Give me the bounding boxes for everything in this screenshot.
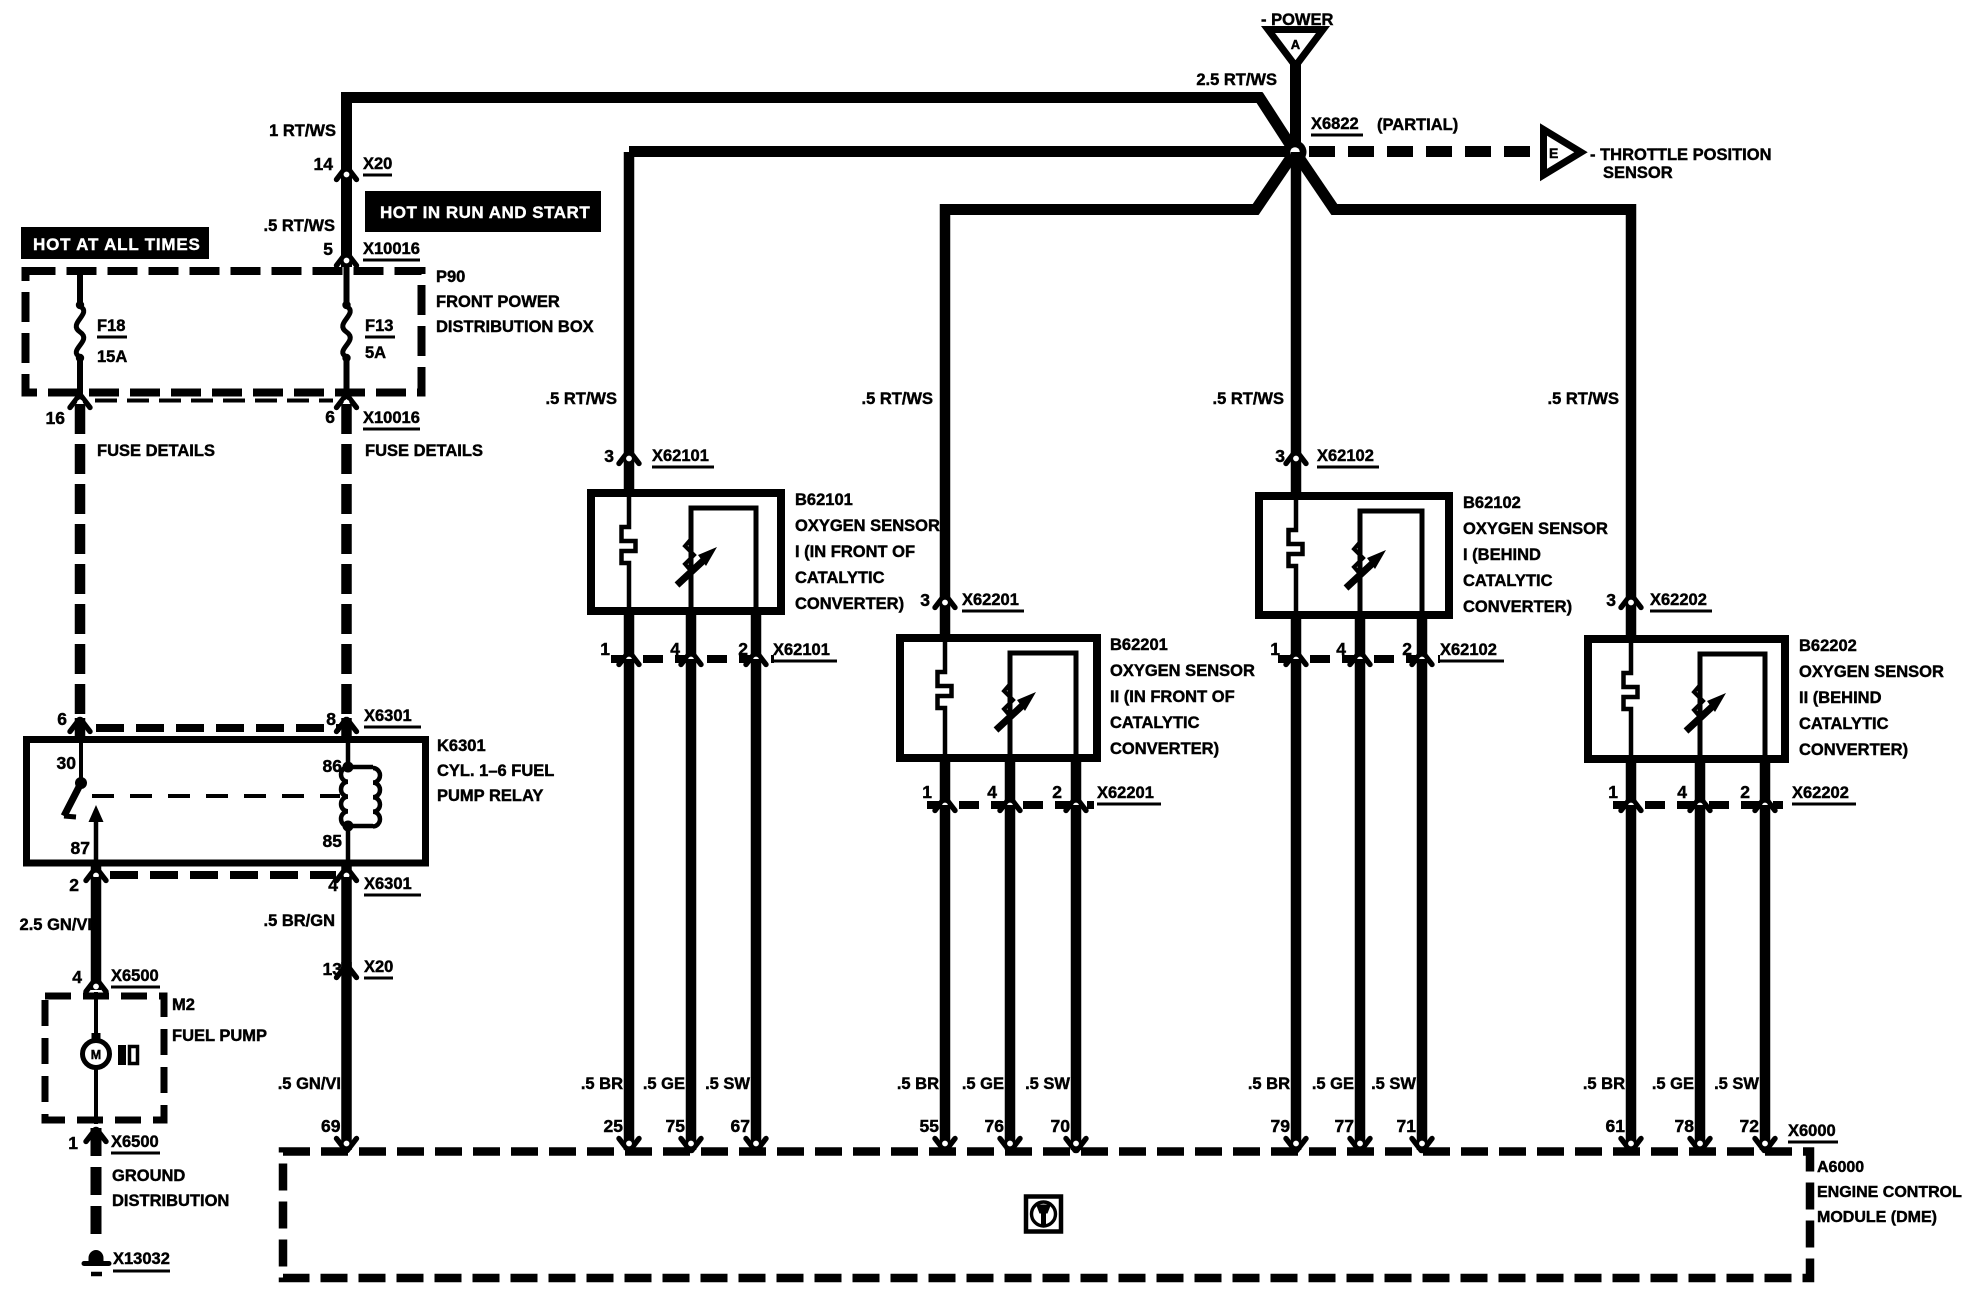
svg-text:X6822: X6822 xyxy=(1311,115,1359,133)
svg-text:FUSE DETAILS: FUSE DETAILS xyxy=(365,442,483,460)
header HOT AT ALL TIMES xyxy=(21,227,209,259)
wire .5 GE B62202 to ECM xyxy=(1695,805,1706,1150)
wire pin 85 out of relay xyxy=(341,861,352,880)
svg-text:CATALYTIC: CATALYTIC xyxy=(795,569,885,587)
relay mechanical link (dashed) xyxy=(92,794,340,798)
svg-text:25: 25 xyxy=(604,1116,624,1136)
svg-text:2: 2 xyxy=(69,875,79,895)
wire .5 BR B62201 to ECM xyxy=(940,805,951,1150)
relay coil terminal 86 dot xyxy=(343,762,354,773)
svg-text:69: 69 xyxy=(321,1116,341,1136)
svg-text:M: M xyxy=(91,1048,101,1062)
svg-text:CONVERTER): CONVERTER) xyxy=(1799,741,1908,759)
svg-text:ENGINE CONTROL: ENGINE CONTROL xyxy=(1817,1184,1962,1201)
wire B62202 pin 4 stub xyxy=(1695,759,1706,809)
wire to ground X13032 (dashed) xyxy=(91,1128,102,1245)
svg-text:.5 GE: .5 GE xyxy=(1652,1075,1694,1093)
connector X6000 pin 70 xyxy=(1066,1139,1086,1151)
wire .5 RT/WS feed to B62101 xyxy=(624,152,635,493)
svg-text:2: 2 xyxy=(1052,782,1062,802)
svg-text:X62101: X62101 xyxy=(773,641,830,659)
svg-text:PUMP RELAY: PUMP RELAY xyxy=(437,787,543,805)
connector X20 pin 13 xyxy=(337,966,357,978)
DME symbol xyxy=(1026,1197,1061,1232)
connector X6000 pin 67 xyxy=(746,1139,766,1151)
svg-text:.5 BR: .5 BR xyxy=(1583,1075,1625,1093)
svg-text:55: 55 xyxy=(920,1116,940,1136)
svg-text:1: 1 xyxy=(1608,782,1618,802)
svg-text:DISTRIBUTION BOX: DISTRIBUTION BOX xyxy=(436,318,594,336)
wire .5 GE B62101 to ECM xyxy=(686,659,697,1150)
connector X6500 pin 1 xyxy=(86,1130,106,1142)
heater element B62201 xyxy=(938,638,952,758)
ground symbol X13032 xyxy=(89,1250,104,1263)
svg-text:GROUND: GROUND xyxy=(112,1167,185,1185)
sensor element frame B62202 xyxy=(1700,654,1765,759)
svg-text:72: 72 xyxy=(1740,1116,1760,1136)
connector X6301 pin 6 xyxy=(70,720,90,732)
wire into motor xyxy=(94,992,98,1042)
connector X62101 pin 2 xyxy=(746,653,766,665)
arrow E to throttle position sensor (triangle) xyxy=(1544,130,1582,176)
sensor probe arrow B62101 xyxy=(685,539,694,571)
connector X6000 pin 77 xyxy=(1350,1139,1370,1151)
wire fuse F13 to relay (dashed) xyxy=(341,404,352,716)
connector X62101 pin 1 xyxy=(619,653,639,665)
relay coil terminal 85 dot xyxy=(343,821,354,832)
svg-text:2.5 RT/WS: 2.5 RT/WS xyxy=(1196,71,1277,89)
connector X62201 pin 2 xyxy=(1066,799,1086,811)
svg-text:X10016: X10016 xyxy=(363,240,420,258)
sensor probe arrow B62201 xyxy=(1004,684,1013,716)
svg-text:FUSE DETAILS: FUSE DETAILS xyxy=(97,442,215,460)
svg-text:DISTRIBUTION: DISTRIBUTION xyxy=(112,1192,229,1210)
svg-text:OXYGEN SENSOR: OXYGEN SENSOR xyxy=(1799,663,1944,681)
wire .5 SW B62102 to ECM xyxy=(1417,659,1428,1150)
wire lower horizontal bus right segment xyxy=(1332,204,1630,215)
wire power triangle to junction X6822 xyxy=(1290,64,1301,152)
wire .5 BR B62101 to ECM xyxy=(624,659,635,1150)
connector X10016 pin 5 xyxy=(337,254,357,266)
svg-text:.5 GN/VI: .5 GN/VI xyxy=(278,1075,341,1093)
svg-text:B62102: B62102 xyxy=(1463,494,1521,512)
svg-text:67: 67 xyxy=(731,1116,750,1136)
svg-text:- THROTTLE POSITION: - THROTTLE POSITION xyxy=(1590,146,1772,164)
svg-text:1: 1 xyxy=(68,1133,78,1153)
wire .5 GN/VI to ECM pin 69 xyxy=(341,962,352,1150)
svg-text:.5 GE: .5 GE xyxy=(1312,1075,1354,1093)
heater element B62101 xyxy=(622,493,636,613)
connector X62102 pin 2 xyxy=(1412,653,1432,665)
wire .5 RT/WS feed to B62102 xyxy=(1291,152,1302,496)
connector X62201 pin 3 xyxy=(935,596,955,608)
svg-text:.5 GE: .5 GE xyxy=(643,1075,685,1093)
fuel pump symbol xyxy=(118,1045,126,1065)
wire fuse F18 to relay (dashed) xyxy=(75,404,86,716)
svg-text:14: 14 xyxy=(314,154,334,174)
svg-text:16: 16 xyxy=(46,408,66,428)
svg-text:F18: F18 xyxy=(97,317,125,335)
svg-text:- POWER: - POWER xyxy=(1261,11,1333,29)
oxygen sensor B62102 box xyxy=(1259,496,1449,615)
relay coil K6301 xyxy=(341,767,348,826)
svg-text:.5 RT/WS: .5 RT/WS xyxy=(1547,390,1619,408)
svg-text:X62101: X62101 xyxy=(652,447,709,465)
svg-text:1: 1 xyxy=(922,782,932,802)
connector X62201 pin 4 xyxy=(1000,799,1020,811)
wire B62101 pin 4 stub xyxy=(686,611,697,663)
connector X62101 pin 4 xyxy=(681,653,701,665)
svg-text:3: 3 xyxy=(920,590,930,610)
relay coil wire pin 85 xyxy=(346,826,351,861)
svg-text:4: 4 xyxy=(670,639,680,659)
svg-text:I (IN FRONT OF: I (IN FRONT OF xyxy=(795,543,915,561)
svg-text:X62201: X62201 xyxy=(1097,784,1154,802)
svg-text:OXYGEN SENSOR: OXYGEN SENSOR xyxy=(1463,520,1608,538)
wire .5 RT/WS feed to B62201 xyxy=(940,204,951,638)
header HOT IN RUN AND START xyxy=(365,191,601,232)
wire below fuse F18 xyxy=(77,360,83,396)
wire 2.5 RT/WS bus (top horizontal) xyxy=(347,92,1263,103)
svg-text:79: 79 xyxy=(1271,1116,1291,1136)
svg-text:X62102: X62102 xyxy=(1317,447,1374,465)
svg-text:X6500: X6500 xyxy=(111,967,159,985)
connector line X62202 bottom xyxy=(1613,801,1783,809)
svg-text:70: 70 xyxy=(1051,1116,1071,1136)
connector line X6301 upper xyxy=(96,724,340,732)
svg-text:X6301: X6301 xyxy=(364,707,412,725)
svg-text:87: 87 xyxy=(71,838,90,858)
svg-text:.5 BR/GN: .5 BR/GN xyxy=(263,912,335,930)
sensor probe arrow B62202 xyxy=(1694,685,1703,717)
svg-text:1: 1 xyxy=(1270,639,1280,659)
wire pin 87 out of relay xyxy=(91,861,102,880)
connector X6000 pin 72 xyxy=(1755,1139,1775,1151)
svg-text:.5 SW: .5 SW xyxy=(705,1075,750,1093)
connector pin 16 xyxy=(70,396,90,408)
connector X6000 pin 75 xyxy=(681,1139,701,1151)
relay switch pivot xyxy=(75,777,87,789)
svg-text:.5 SW: .5 SW xyxy=(1025,1075,1070,1093)
connector X62102 pin 3 xyxy=(1286,452,1306,464)
svg-text:FUEL PUMP: FUEL PUMP xyxy=(172,1027,267,1045)
svg-text:2: 2 xyxy=(1740,782,1750,802)
wire B62102 pin 2 stub xyxy=(1417,615,1428,663)
svg-text:X20: X20 xyxy=(363,155,392,173)
svg-text:2: 2 xyxy=(738,639,748,659)
svg-text:OXYGEN SENSOR: OXYGEN SENSOR xyxy=(1110,662,1255,680)
connector X62202 pin 4 xyxy=(1690,799,1710,811)
box K6301 fuel pump relay xyxy=(27,740,426,864)
svg-text:71: 71 xyxy=(1397,1116,1417,1136)
svg-text:77: 77 xyxy=(1335,1116,1354,1136)
wire motor to pin 1 xyxy=(94,1068,98,1124)
wire .5 GE B62102 to ECM xyxy=(1355,659,1366,1150)
svg-text:M2: M2 xyxy=(172,996,195,1014)
connector X62102 pin 1 xyxy=(1286,653,1306,665)
wire below fuse F13 xyxy=(344,360,350,396)
svg-text:CATALYTIC: CATALYTIC xyxy=(1463,572,1553,590)
fuse F13 5A xyxy=(343,306,351,357)
relay coil wire pin 86 xyxy=(346,743,351,765)
wire diagonal lower-left into junction xyxy=(1254,159,1290,212)
connector X20 pin 14 xyxy=(337,168,357,180)
svg-text:4: 4 xyxy=(72,967,82,987)
connector X6000 pin 78 xyxy=(1690,1139,1710,1151)
svg-text:X62201: X62201 xyxy=(962,591,1019,609)
oxygen sensor B62202 box xyxy=(1588,639,1785,759)
wire diagonal junction to lower-right xyxy=(1300,159,1336,212)
box P90 front power distribution box xyxy=(26,271,422,393)
connector X6000 pin 71 xyxy=(1412,1139,1432,1151)
connector line X10016 under P90 xyxy=(95,399,333,403)
box M2 fuel pump xyxy=(45,996,164,1120)
svg-text:2.5 GN/VI: 2.5 GN/VI xyxy=(20,916,92,934)
svg-text:.5 BR: .5 BR xyxy=(581,1075,623,1093)
heater element B62102 xyxy=(1289,496,1303,616)
wire pin 8 into relay xyxy=(341,718,352,742)
connector line X62201 bottom xyxy=(927,801,1094,809)
svg-text:85: 85 xyxy=(323,831,343,851)
svg-text:5A: 5A xyxy=(365,344,386,362)
svg-text:X6301: X6301 xyxy=(364,875,412,893)
wire into fuse F18 xyxy=(77,271,83,303)
oxygen sensor B62101 box xyxy=(591,493,781,611)
connector X62102 pin 4 xyxy=(1350,653,1370,665)
svg-text:P90: P90 xyxy=(436,268,465,286)
box A6000 engine control module xyxy=(283,1152,1810,1279)
wire .5 BR/GN xyxy=(341,877,352,968)
svg-text:3: 3 xyxy=(1606,590,1616,610)
connector X6301 pin 4 xyxy=(337,869,357,881)
wire B62201 pin 4 stub xyxy=(1005,758,1016,809)
connector line X62101 bottom xyxy=(611,655,774,663)
connector X10016 pin 6 xyxy=(337,396,357,408)
wire diagonal top-left into junction xyxy=(1258,95,1291,146)
svg-text:8: 8 xyxy=(326,709,336,729)
wire pin 6 into relay xyxy=(75,718,86,742)
wire B62101 pin 1 stub xyxy=(624,611,635,663)
svg-text:CATALYTIC: CATALYTIC xyxy=(1799,715,1889,733)
svg-text:X6000: X6000 xyxy=(1788,1122,1836,1140)
svg-text:X62202: X62202 xyxy=(1792,784,1849,802)
svg-text:4: 4 xyxy=(1336,639,1346,659)
svg-text:CONVERTER): CONVERTER) xyxy=(1463,598,1572,616)
svg-text:6: 6 xyxy=(57,709,67,729)
svg-text:1 RT/WS: 1 RT/WS xyxy=(269,122,336,140)
svg-text:CATALYTIC: CATALYTIC xyxy=(1110,714,1200,732)
svg-text:5: 5 xyxy=(323,239,333,259)
svg-text:.5 RT/WS: .5 RT/WS xyxy=(861,390,933,408)
wire .5 BR B62102 to ECM xyxy=(1291,659,1302,1150)
connector X6500 pin 4 xyxy=(86,980,106,992)
sensor probe arrow B62102 xyxy=(1354,542,1363,574)
connector X6301 pin 2 xyxy=(86,869,106,881)
svg-text:FRONT POWER: FRONT POWER xyxy=(436,293,560,311)
fuse F18 15A xyxy=(76,306,84,357)
svg-text:SENSOR: SENSOR xyxy=(1603,164,1673,182)
connector line X62102 bottom xyxy=(1278,655,1440,663)
svg-text:(PARTIAL): (PARTIAL) xyxy=(1377,116,1458,134)
svg-text:15A: 15A xyxy=(97,348,127,366)
svg-text:CYL. 1–6 FUEL: CYL. 1–6 FUEL xyxy=(437,762,554,780)
svg-text:B62202: B62202 xyxy=(1799,637,1857,655)
svg-text:X6500: X6500 xyxy=(111,1133,159,1151)
svg-text:CONVERTER): CONVERTER) xyxy=(1110,740,1219,758)
sensor element frame B62201 xyxy=(1010,653,1076,758)
connector X6301 pin 8 xyxy=(337,720,357,732)
svg-text:B62201: B62201 xyxy=(1110,636,1168,654)
svg-text:.5 GE: .5 GE xyxy=(962,1075,1004,1093)
svg-text:.5 SW: .5 SW xyxy=(1371,1075,1416,1093)
wire .5 GE B62201 to ECM xyxy=(1005,805,1016,1150)
svg-text:6: 6 xyxy=(325,407,335,427)
svg-text:K6301: K6301 xyxy=(437,737,486,755)
svg-text:4: 4 xyxy=(987,782,997,802)
wire .5 RT/WS feed to B62202 xyxy=(1626,204,1637,639)
svg-text:B62101: B62101 xyxy=(795,491,853,509)
wire into fuse F13 xyxy=(344,267,350,303)
connector X62201 pin 1 xyxy=(935,799,955,811)
connector X6000 pin 69 xyxy=(337,1139,357,1151)
svg-text:I (BEHIND: I (BEHIND xyxy=(1463,546,1541,564)
relay contact 87 arrow xyxy=(89,805,104,822)
connector X6000 pin 25 xyxy=(619,1139,639,1151)
svg-text:.5 BR: .5 BR xyxy=(897,1075,939,1093)
wire B62102 pin 1 stub xyxy=(1291,615,1302,663)
wire dashed junction to throttle position sensor xyxy=(1309,146,1540,157)
svg-text:II (BEHIND: II (BEHIND xyxy=(1799,689,1882,707)
sensor element frame B62101 xyxy=(691,508,756,611)
wire B62202 pin 1 stub xyxy=(1626,759,1637,809)
svg-text:X13032: X13032 xyxy=(113,1250,170,1268)
wire .5 SW B62101 to ECM xyxy=(751,659,762,1150)
svg-text:76: 76 xyxy=(985,1116,1005,1136)
sensor element frame B62102 xyxy=(1360,511,1422,615)
svg-text:2: 2 xyxy=(1402,639,1412,659)
relay switch input wire pin 30 xyxy=(79,743,83,783)
svg-text:E: E xyxy=(1549,145,1558,161)
svg-text:CONVERTER): CONVERTER) xyxy=(795,595,904,613)
connector X6000 pin 79 xyxy=(1286,1139,1306,1151)
wire B62101 pin 2 stub xyxy=(751,611,762,663)
svg-text:30: 30 xyxy=(57,753,77,773)
wire B62201 pin 1 stub xyxy=(940,758,951,809)
svg-text:78: 78 xyxy=(1675,1116,1695,1136)
wire middle horizontal bus to junction xyxy=(629,146,1295,157)
wire B62102 pin 4 stub xyxy=(1355,615,1366,663)
wire B62201 pin 2 stub xyxy=(1071,758,1082,809)
connector X62202 pin 2 xyxy=(1755,799,1775,811)
svg-text:.5 RT/WS: .5 RT/WS xyxy=(545,390,617,408)
wire .5 BR B62202 to ECM xyxy=(1626,805,1637,1150)
svg-text:HOT IN RUN AND START: HOT IN RUN AND START xyxy=(380,203,590,222)
svg-text:X62102: X62102 xyxy=(1440,641,1497,659)
svg-text:.5 RT/WS: .5 RT/WS xyxy=(263,217,335,235)
svg-text:1: 1 xyxy=(600,639,610,659)
svg-text:61: 61 xyxy=(1606,1116,1626,1136)
wire .5 SW B62202 to ECM xyxy=(1760,805,1771,1150)
connector X62101 pin 3 xyxy=(619,452,639,464)
svg-text:.5 RT/WS: .5 RT/WS xyxy=(1212,390,1284,408)
oxygen sensor B62201 box xyxy=(900,638,1097,758)
svg-text:MODULE (DME): MODULE (DME) xyxy=(1817,1209,1937,1226)
wire lower horizontal bus left segment xyxy=(945,204,1258,215)
svg-text:A6000: A6000 xyxy=(1817,1159,1864,1176)
heater element B62202 xyxy=(1624,639,1638,759)
svg-text:X10016: X10016 xyxy=(363,409,420,427)
connector line X6301 lower xyxy=(110,871,336,879)
svg-text:X62202: X62202 xyxy=(1650,591,1707,609)
connector X62202 pin 1 xyxy=(1621,799,1641,811)
node X6822 junction xyxy=(1284,141,1307,164)
connector X6000 pin 61 xyxy=(1621,1139,1641,1151)
svg-text:II (IN FRONT OF: II (IN FRONT OF xyxy=(1110,688,1235,706)
svg-text:75: 75 xyxy=(666,1116,686,1136)
svg-text:3: 3 xyxy=(604,446,614,466)
svg-text:OXYGEN SENSOR: OXYGEN SENSOR xyxy=(795,517,940,535)
motor M2 symbol xyxy=(92,1033,101,1041)
connector X6000 pin 76 xyxy=(1000,1139,1020,1151)
wire 2.5 GN/VI xyxy=(91,877,102,990)
wire B62202 pin 2 stub xyxy=(1760,759,1771,809)
svg-text:HOT AT ALL TIMES: HOT AT ALL TIMES xyxy=(33,235,201,254)
relay switch blade xyxy=(64,783,81,816)
svg-text:F13: F13 xyxy=(365,317,393,335)
wire .5 SW B62201 to ECM xyxy=(1071,805,1082,1150)
svg-text:A: A xyxy=(1291,37,1301,52)
svg-text:.5 BR: .5 BR xyxy=(1248,1075,1290,1093)
connector X62202 pin 3 xyxy=(1621,596,1641,608)
svg-text:.5 SW: .5 SW xyxy=(1714,1075,1759,1093)
wire 1 RT/WS xyxy=(341,92,352,267)
svg-text:X20: X20 xyxy=(364,958,393,976)
power symbol A (triangle) xyxy=(1268,30,1323,67)
svg-text:4: 4 xyxy=(1677,782,1687,802)
connector X6000 pin 55 xyxy=(935,1139,955,1151)
